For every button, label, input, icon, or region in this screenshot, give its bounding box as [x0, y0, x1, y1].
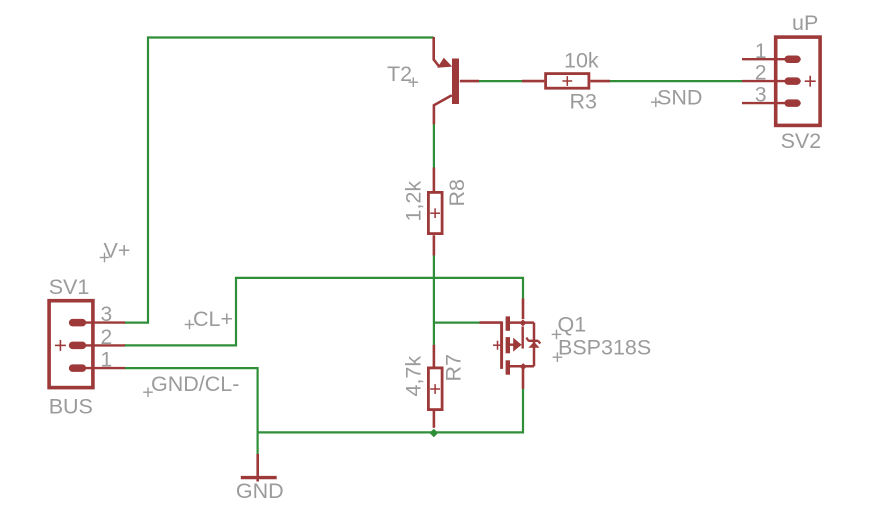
svg-text:1: 1: [100, 349, 112, 372]
svg-text:SND: SND: [657, 85, 702, 109]
svg-text:R3: R3: [570, 90, 598, 114]
svg-text:R8: R8: [445, 179, 469, 207]
svg-text:SV1: SV1: [49, 275, 90, 299]
svg-text:SV2: SV2: [781, 129, 822, 153]
svg-text:2: 2: [755, 62, 767, 85]
svg-text:R7: R7: [442, 354, 466, 381]
svg-text:4,7k: 4,7k: [402, 356, 426, 397]
svg-text:2: 2: [100, 326, 112, 349]
svg-text:1,2k: 1,2k: [402, 181, 426, 222]
svg-text:GND/CL-: GND/CL-: [151, 372, 239, 396]
svg-text:T2: T2: [387, 62, 412, 86]
svg-text:uP: uP: [792, 11, 818, 35]
svg-text:3: 3: [100, 303, 112, 326]
svg-text:BUS: BUS: [49, 395, 93, 419]
svg-text:10k: 10k: [564, 49, 599, 73]
svg-text:Q1: Q1: [558, 313, 587, 337]
svg-text:CL+: CL+: [193, 307, 233, 331]
svg-text:1: 1: [755, 40, 767, 63]
svg-text:3: 3: [755, 84, 767, 107]
svg-text:BSP318S: BSP318S: [558, 336, 651, 360]
svg-text:V+: V+: [104, 238, 131, 262]
svg-text:GND: GND: [236, 479, 284, 503]
